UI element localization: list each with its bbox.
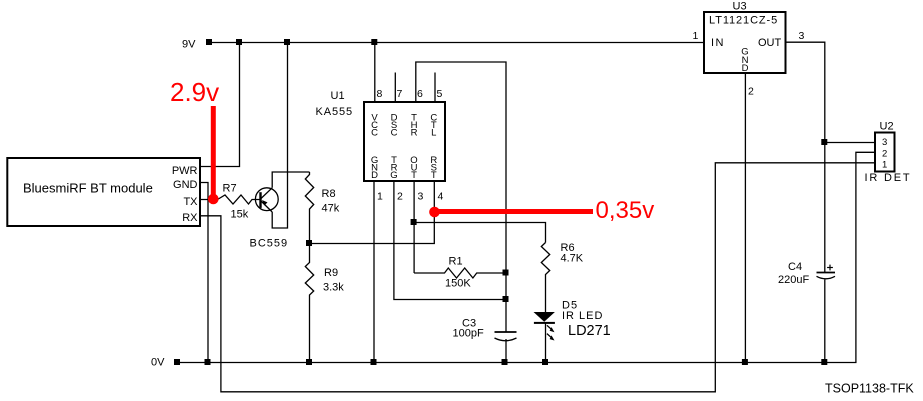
svg-text:100pF: 100pF xyxy=(453,328,484,340)
svg-text:C4: C4 xyxy=(788,261,802,273)
svg-text:RST: RST xyxy=(430,155,437,181)
svg-text:220uF: 220uF xyxy=(778,274,809,286)
svg-text:PWR: PWR xyxy=(172,165,198,177)
wire pin5 stub xyxy=(434,73,436,103)
svg-text:TX: TX xyxy=(183,196,198,208)
svg-text:IR LED: IR LED xyxy=(562,310,603,322)
junction R8/R9/RST xyxy=(306,240,312,246)
svg-text:7: 7 xyxy=(397,88,403,100)
junction 9V/U1 pin8 xyxy=(371,39,377,45)
wire 0V rail xyxy=(178,152,876,362)
svg-text:OUT: OUT xyxy=(758,37,782,49)
wire pin3 OUT down xyxy=(413,182,415,274)
junction 0V/U3 pin2 xyxy=(742,359,748,365)
resistor R6 xyxy=(541,243,549,313)
wire RX to bottom to U2 pin1 xyxy=(201,163,876,392)
svg-text:THR: THR xyxy=(411,113,418,139)
svg-text:3.3k: 3.3k xyxy=(323,282,344,294)
wire U3 pin3 out xyxy=(786,42,825,272)
svg-text:9V: 9V xyxy=(182,39,196,51)
resistor R9 xyxy=(305,244,313,363)
svg-text:3: 3 xyxy=(799,30,805,42)
svg-text:R9: R9 xyxy=(324,267,338,279)
svg-text:15k: 15k xyxy=(231,209,249,221)
wire RST to divider xyxy=(310,182,435,244)
svg-text:CTL: CTL xyxy=(430,113,437,139)
svg-text:150K: 150K xyxy=(445,278,471,290)
wire pin2 TRG xyxy=(394,182,506,300)
svg-text:6: 6 xyxy=(417,88,423,100)
resistor R1 xyxy=(414,268,506,278)
svg-text:1: 1 xyxy=(377,191,383,203)
svg-text:4: 4 xyxy=(438,191,444,203)
svg-text:47k: 47k xyxy=(322,203,340,215)
regulator U3 box xyxy=(704,12,786,73)
svg-text:BluesmiRF BT module: BluesmiRF BT module xyxy=(23,181,153,196)
svg-text:BC559: BC559 xyxy=(250,238,289,250)
capacitor C4 xyxy=(817,272,836,274)
svg-text:OUT: OUT xyxy=(410,155,417,181)
red annotations xyxy=(170,77,654,224)
svg-text:TSOP1138-TFK: TSOP1138-TFK xyxy=(825,382,914,396)
svg-text:DSC: DSC xyxy=(391,113,398,139)
junction 0V/U1 pin1 xyxy=(371,359,377,365)
resistor R8 xyxy=(305,172,313,244)
junction 9V/Q1 emitter xyxy=(284,39,290,45)
red probe line 0,35v xyxy=(437,209,593,214)
junction TRG/THR xyxy=(503,296,509,302)
diode D5 leads xyxy=(545,323,547,362)
svg-text:U2: U2 xyxy=(880,121,894,133)
junction 0V/C3 xyxy=(502,359,508,365)
junction OUT node xyxy=(411,219,417,225)
wire GND to 0V xyxy=(201,183,209,363)
svg-text:GND: GND xyxy=(741,47,748,75)
capacitor C3 xyxy=(495,331,517,333)
U1 pin names xyxy=(371,113,437,182)
svg-text:4.7K: 4.7K xyxy=(561,253,584,265)
junction 0V/module GND xyxy=(205,359,211,365)
wire U2 pin3 xyxy=(825,142,876,144)
svg-text:RX: RX xyxy=(182,212,198,224)
transistor Q1 BC559 xyxy=(255,188,278,211)
svg-text:R1: R1 xyxy=(449,256,463,268)
svg-text:LT1121CZ-5: LT1121CZ-5 xyxy=(709,15,778,27)
wire emitter to 9V xyxy=(272,43,287,229)
junction 0V/C4 xyxy=(821,359,827,365)
svg-text:GND: GND xyxy=(173,179,198,191)
svg-text:TRG: TRG xyxy=(390,155,397,181)
svg-text:R8: R8 xyxy=(322,188,336,200)
junction 0V/R9 xyxy=(306,359,312,365)
svg-text:VCC: VCC xyxy=(371,113,378,139)
svg-text:U1: U1 xyxy=(331,90,345,102)
svg-text:IR DET: IR DET xyxy=(865,172,912,184)
svg-text:0,35v: 0,35v xyxy=(596,197,655,224)
svg-text:R7: R7 xyxy=(223,183,237,195)
node 0V terminal dot xyxy=(174,359,180,365)
junction 9V/PWR xyxy=(236,39,242,45)
svg-text:2: 2 xyxy=(397,191,403,203)
IC U1 box xyxy=(364,102,445,181)
svg-text:2.9v: 2.9v xyxy=(170,77,219,107)
junction U3 out/U2 pin3 xyxy=(821,139,827,145)
wire TX stub xyxy=(201,199,218,201)
wire pin8 to 9V xyxy=(374,43,376,103)
svg-text:321: 321 xyxy=(882,137,887,171)
wire U3 pin2 gnd xyxy=(744,73,746,362)
svg-text:0V: 0V xyxy=(151,357,165,369)
svg-text:GND: GND xyxy=(371,155,378,181)
svg-text:2: 2 xyxy=(748,86,754,98)
LED D5 xyxy=(534,312,555,341)
wire 9V rail xyxy=(210,42,705,44)
wire pin7 stub xyxy=(394,73,396,103)
svg-text:KA555: KA555 xyxy=(316,106,354,118)
wire pin6 THR loop xyxy=(416,62,506,332)
svg-text:LD271: LD271 xyxy=(568,323,611,339)
wire PWR to 9V xyxy=(201,43,240,167)
svg-text:3: 3 xyxy=(418,191,424,203)
resistor R7 xyxy=(218,195,260,204)
IR detector U2 box xyxy=(875,133,895,172)
junction 0V/D5 xyxy=(542,359,548,365)
wire collector up to R8 xyxy=(272,172,309,188)
red probe line 2.9v xyxy=(211,106,216,197)
wire OUT to R6 xyxy=(414,223,545,243)
wire pin1 GND down xyxy=(373,182,375,363)
svg-text:IN: IN xyxy=(711,37,725,49)
svg-text:5: 5 xyxy=(437,88,443,100)
junction R1/THR xyxy=(503,270,509,276)
svg-text:8: 8 xyxy=(377,88,383,100)
svg-text:1: 1 xyxy=(693,30,699,42)
svg-text:U3: U3 xyxy=(733,1,747,13)
BT module box xyxy=(7,158,200,226)
node 9V terminal dot xyxy=(206,39,212,45)
